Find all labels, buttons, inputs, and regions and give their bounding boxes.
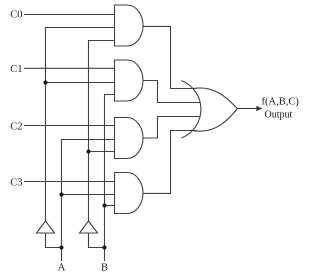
wire C0 (24, 14, 116, 16)
wire A' rail to U1 (46, 28, 117, 222)
wire A rail to U3 (62, 140, 117, 262)
svg-text:B: B (101, 263, 108, 274)
svg-text:C2: C2 (10, 121, 22, 132)
and-gate U4 (115, 173, 144, 214)
output arrow (237, 106, 261, 111)
wire B' branch to U3 (89, 151, 117, 153)
junction A-U4 (60, 193, 64, 197)
junction A-inverter (60, 246, 64, 250)
inverter U7 (B) (80, 221, 98, 233)
junction B-U4 (103, 204, 107, 208)
wire U1 output to OR (142, 26, 196, 88)
and-gate U1 (115, 5, 144, 46)
wire C3 (24, 181, 116, 183)
and-gate U3 (115, 118, 144, 159)
wire C2 (24, 125, 116, 127)
wire U4 output to OR (142, 131, 196, 194)
wire C1 (24, 67, 116, 69)
svg-text:A: A (58, 263, 66, 274)
wire B rail to U2 (105, 95, 117, 262)
junction A'-U2 (44, 81, 48, 85)
svg-text:f(A,B,C): f(A,B,C) (262, 97, 300, 108)
wire inverter U7 input (89, 233, 105, 248)
svg-text:Output: Output (265, 110, 293, 121)
wire B' rail to U1 (89, 41, 117, 222)
wire U3 output to OR (142, 117, 200, 139)
junction B-inverter (103, 246, 107, 250)
wire A' branch to U2 (46, 82, 117, 84)
wire B branch to U4 (105, 205, 117, 207)
svg-text:C3: C3 (10, 178, 22, 189)
wire U2 output to OR (142, 81, 200, 103)
wire A branch to U4 (62, 194, 117, 196)
inverter U6 (A) (37, 221, 55, 233)
svg-text:C0: C0 (10, 10, 22, 21)
and-gate U2 (115, 60, 143, 101)
svg-text:C1: C1 (10, 64, 22, 75)
or-gate U5 (182, 81, 238, 139)
wire inverter U6 input (46, 233, 62, 248)
junction B'-U3 (87, 150, 91, 154)
